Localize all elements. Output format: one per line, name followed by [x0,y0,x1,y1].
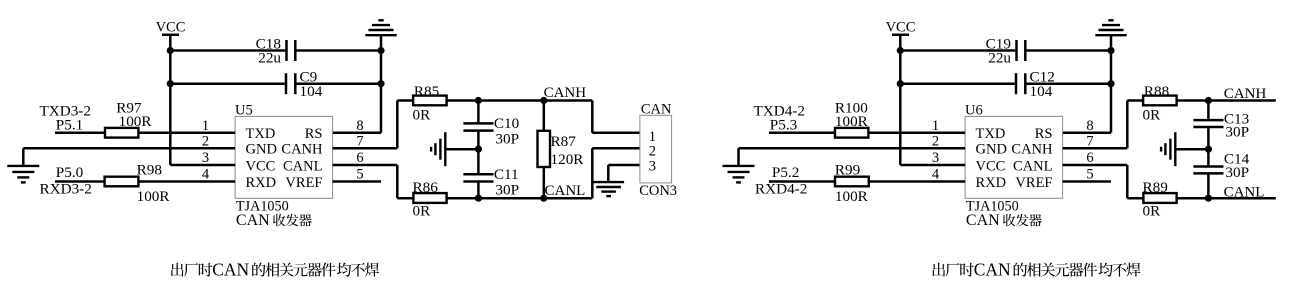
wire RXD input to pin 4 [55,180,235,183]
wire mid junction to ground [445,148,478,151]
wire VCC vertical rail [169,35,172,165]
wire TXD input to pin 1 [769,132,965,135]
svg-text:RXD: RXD [976,175,1007,191]
junction dots CANH/CANL rails [475,97,548,202]
node CANH [544,85,587,101]
svg-text:CAN: CAN [236,212,270,229]
wire VCC to C18 left plate [170,49,285,52]
wire RXD input to pin 4 [769,180,965,183]
svg-text:0R: 0R [413,203,432,220]
svg-text:22u: 22u [258,50,281,67]
ground (top, at decoupling caps) [365,20,396,35]
op-amp U6 TJA1050 [965,102,1063,198]
connector CON3 [639,101,677,198]
svg-text:8: 8 [1086,118,1093,134]
node TXD3-2 [40,102,91,133]
svg-text:4: 4 [202,167,210,183]
svg-text:2: 2 [932,133,939,149]
junction dots on power rails [897,47,1115,87]
resistor R86 0R [413,179,447,219]
pin numbers 5-8 [1086,118,1093,183]
svg-text:100R: 100R [835,188,869,205]
svg-text:5: 5 [1086,167,1093,183]
resistor R88 0R [1143,83,1177,123]
wire pin 6 CANL to R89 [1063,165,1144,198]
svg-text:CANH: CANH [281,142,323,158]
resistor R85 0R [413,83,447,123]
resistor R97 100R [105,100,152,138]
wire C19 right plate to ground rail [1027,49,1112,52]
power symbol VCC [886,20,916,36]
ground (connector pin 3) [593,182,624,196]
svg-text:5: 5 [356,167,363,183]
svg-text:1: 1 [202,118,209,134]
ground (top, at decoupling caps) [1095,20,1126,35]
wire mid junction to ground [1175,148,1208,151]
svg-text:6: 6 [1086,150,1093,166]
svg-text:R86: R86 [413,179,439,196]
svg-text:7: 7 [1086,133,1093,149]
svg-text:104: 104 [300,83,323,100]
wire ground rail down to pin 8 [1063,35,1111,133]
svg-text:RXD4-2: RXD4-2 [755,181,807,198]
wire VCC to C9 left plate [170,82,284,85]
wire VCC vertical rail [899,35,902,165]
svg-text:2: 2 [649,144,656,160]
wire pin 5 VREF stub [333,180,381,183]
capacitor C13 30P [1193,101,1249,150]
svg-text:3: 3 [932,150,939,166]
node CANL [545,183,586,199]
node CANH (right) [1224,86,1267,102]
capacitor C9 104 [286,69,323,101]
capacitor C18 22u [256,36,296,67]
capacitor C12 104 [1016,69,1055,101]
ground (between filter caps) [1161,132,1175,166]
svg-text:P5.0: P5.0 [56,164,84,181]
svg-text:R98: R98 [137,161,163,178]
svg-text:30P: 30P [495,182,519,199]
svg-text:CANL: CANL [1013,158,1052,174]
wire ground rail down to pin 8 [333,35,381,133]
wire VCC rail to pin 3 [900,164,965,167]
svg-text:CANH: CANH [1224,86,1267,102]
junction dots CANH/CANL rails [1205,97,1212,202]
svg-text:TXD: TXD [246,126,276,142]
resistor R98 100R [105,161,171,205]
wire C12 right plate to ground rail [1027,82,1112,85]
wire pin 5 VREF stub [1063,180,1111,183]
op-amp U5 TJA1050 [235,102,333,198]
node CANL (right) [1224,185,1265,201]
ground (input side) [7,166,39,183]
svg-text:100R: 100R [835,113,869,130]
value label TJA1050 [236,198,289,214]
node TXD4-2 [754,102,805,133]
note: CAN components not soldered at factory (right) [932,260,1140,280]
wire connector pin 3 to ground [608,165,640,182]
svg-text:100R: 100R [119,113,153,130]
resistor R89 0R [1143,179,1177,219]
pin numbers 1-4 [932,118,940,183]
svg-text:RXD3-2: RXD3-2 [40,181,92,198]
svg-text:CANH: CANH [544,85,587,101]
svg-text:R99: R99 [835,161,860,178]
wire CANH to connector pin 1 [592,101,640,133]
svg-text:RXD: RXD [246,175,277,191]
resistor R87 120R [538,101,585,199]
svg-text:C11: C11 [494,166,519,183]
capacitor C10 30P [463,101,519,150]
ground (input side) [723,166,755,183]
svg-text:CAN: CAN [966,212,1000,229]
svg-text:P5.2: P5.2 [772,164,799,181]
svg-text:CAN: CAN [212,260,249,280]
wire CANH rail [1177,99,1276,102]
svg-text:3: 3 [649,158,656,174]
svg-text:TXD: TXD [976,126,1006,142]
svg-text:30P: 30P [1225,164,1249,181]
note: CAN components not soldered at factory (left) [171,260,379,280]
svg-text:6: 6 [356,150,363,166]
power symbol VCC [156,20,186,36]
svg-text:R85: R85 [414,83,439,100]
svg-text:GND: GND [976,142,1007,158]
capacitor C14 30P [1193,149,1249,198]
svg-text:2: 2 [202,133,209,149]
svg-text:VCC: VCC [156,20,186,36]
resistor R100 100R [835,100,869,138]
wire TXD input to pin 1 [55,132,235,135]
junction dots on power rails [167,47,385,87]
capacitor C19 22u [986,36,1026,67]
svg-text:CAN: CAN [974,260,1011,280]
wire CANL rail [447,197,593,200]
wire pin 7 CANH to R85 [333,101,414,149]
svg-text:U5: U5 [235,102,253,118]
svg-text:VCC: VCC [886,20,916,36]
svg-text:VCC: VCC [976,158,1006,174]
svg-text:30P: 30P [495,131,519,148]
svg-text:120R: 120R [551,151,585,168]
ground (between filter caps) [431,132,445,166]
svg-text:CON3: CON3 [639,183,677,199]
svg-text:104: 104 [1030,83,1053,100]
wire CANL rail [1177,197,1276,200]
svg-text:CANL: CANL [283,158,322,174]
svg-text:30P: 30P [1225,123,1249,140]
svg-text:P5.1: P5.1 [56,116,83,133]
svg-text:R87: R87 [551,133,577,150]
pin numbers 1-4 [202,118,210,183]
value label CAN transceiver [966,212,1042,229]
svg-text:8: 8 [356,118,363,134]
node RXD4-2 [755,164,807,198]
wire VCC to C19 left plate [900,49,1015,52]
svg-text:CANL: CANL [1224,185,1265,201]
wire C9 right plate to ground rail [297,82,382,85]
wire CANL to connector pin 2 [592,148,640,198]
svg-text:R88: R88 [1144,83,1170,100]
svg-text:0R: 0R [1143,203,1162,220]
svg-text:0R: 0R [413,107,432,124]
svg-text:RS: RS [1035,126,1053,142]
wire pin 7 CANH to R88 [1063,101,1144,149]
svg-text:R89: R89 [1143,179,1168,196]
svg-text:1: 1 [649,129,656,145]
wire C18 right plate to ground rail [297,49,382,52]
svg-text:4: 4 [932,167,940,183]
wire CANH rail [447,99,593,102]
svg-text:1: 1 [932,118,939,134]
pin numbers 5-8 [356,118,363,183]
svg-text:3: 3 [202,150,209,166]
svg-text:RS: RS [305,126,323,142]
svg-text:P5.3: P5.3 [770,116,797,133]
value label CAN transceiver [236,212,312,229]
svg-text:C10: C10 [494,115,520,132]
value label TJA1050 [966,198,1019,214]
svg-text:U6: U6 [965,102,983,118]
svg-text:VREF: VREF [1015,175,1052,191]
wire pin 6 CANL to R86 [333,165,414,198]
svg-text:GND: GND [246,142,277,158]
svg-text:100R: 100R [137,188,171,205]
svg-text:VREF: VREF [285,175,322,191]
wire VCC to C12 left plate [900,82,1015,85]
svg-text:VCC: VCC [246,158,276,174]
svg-text:0R: 0R [1143,107,1162,124]
svg-text:CAN: CAN [641,101,672,117]
wire GND pin 2 [739,148,966,165]
svg-text:22u: 22u [988,50,1011,67]
svg-text:7: 7 [356,133,363,149]
resistor R99 100R [835,161,869,205]
svg-text:CANH: CANH [1011,142,1053,158]
node RXD3-2 [40,164,92,198]
capacitor C11 30P [463,149,519,198]
wire VCC rail to pin 3 [170,164,235,167]
wire GND pin 2 [23,148,235,165]
svg-text:CANL: CANL [545,183,586,199]
